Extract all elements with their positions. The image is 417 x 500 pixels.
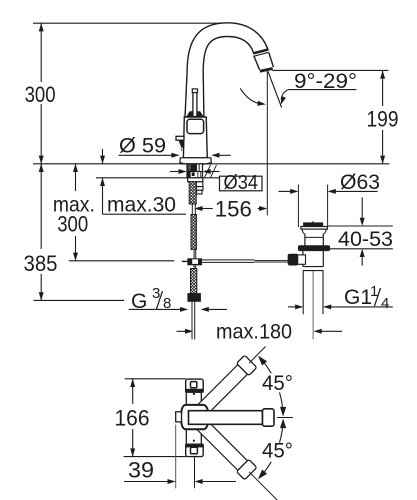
plate screw dots xyxy=(193,393,195,395)
pop-up waste: Ø63 extension lines xyxy=(297,185,299,227)
max.300 bottom reference line xyxy=(69,260,174,262)
waste flange rim xyxy=(301,227,328,230)
spout gooseneck inner curve xyxy=(203,37,254,73)
thin rod below fitting xyxy=(193,265,195,269)
axis extension line xyxy=(194,457,196,489)
swivel arm at +45° (up) xyxy=(184,355,257,428)
199 reference line from outlet xyxy=(273,69,389,71)
dimension max.30 (deck thickness) xyxy=(102,149,104,164)
pull rod plain segment xyxy=(191,204,193,215)
lower view: bottom reference line xyxy=(124,456,186,458)
svg-text:300: 300 xyxy=(25,82,56,107)
clamp knob xyxy=(288,254,298,265)
body window detail xyxy=(187,119,204,133)
waste tail pipe xyxy=(302,271,304,315)
svg-text:166: 166 xyxy=(115,406,150,431)
waste axis line xyxy=(312,271,314,339)
lower 45° arc xyxy=(259,462,271,478)
threaded rod below fitting (hatched) xyxy=(191,269,197,294)
svg-text:156: 156 xyxy=(215,197,252,222)
dimension max.180 xyxy=(177,330,186,332)
dimension 199 (outlet height) xyxy=(382,70,384,106)
upper 45° arc xyxy=(259,357,271,373)
waste O-ring xyxy=(298,246,329,251)
dimension Ø59 (base diameter) xyxy=(119,154,173,156)
flexible hoses xyxy=(191,301,193,339)
locknut below deck xyxy=(188,178,203,182)
horizontal pop-up rod xyxy=(201,259,254,261)
central axis tick xyxy=(277,417,293,419)
svg-text:G1: G1 xyxy=(344,286,372,309)
svg-text:199: 199 xyxy=(367,107,399,132)
svg-text:300: 300 xyxy=(57,212,88,237)
lever base wedge right xyxy=(197,111,204,116)
spout tip extension line xyxy=(266,71,268,216)
385 bottom reference line xyxy=(34,299,125,301)
threaded rod lower segment (hatched) xyxy=(191,215,196,250)
deck cross-section hatch right of shank xyxy=(205,165,211,178)
lower arm axis extension xyxy=(249,472,280,500)
waste upper cylinder xyxy=(304,234,306,246)
dimension 40-53 xyxy=(328,225,393,227)
dimension G1 1/4 xyxy=(288,306,295,308)
lever cap xyxy=(192,89,197,93)
boxed label Ø34 xyxy=(220,176,263,191)
dimension 156 (spout reach) xyxy=(202,208,213,210)
waste coupling joint xyxy=(303,266,323,268)
flange taper xyxy=(302,229,326,234)
waste plug top xyxy=(312,221,314,223)
svg-text:39: 39 xyxy=(128,458,154,483)
lever joystick rod xyxy=(193,92,197,117)
G3/8 connection nut xyxy=(188,294,200,302)
knob face extension line xyxy=(175,425,177,489)
hose nipple block xyxy=(196,182,203,187)
swivel arm at -45° (down) xyxy=(184,407,257,480)
top extension line (300 ref, spout apex) xyxy=(33,22,221,24)
dimension 385 (total depth) xyxy=(40,164,42,249)
mounting shank through deck xyxy=(187,164,203,178)
faucet body xyxy=(183,117,207,158)
svg-text:40-53: 40-53 xyxy=(338,228,393,251)
wall plate xyxy=(186,390,201,446)
swivel arc with arrow xyxy=(240,88,262,104)
svg-text:45°: 45° xyxy=(262,372,293,395)
outlet angle diagonal xyxy=(268,72,282,108)
svg-text:45°: 45° xyxy=(262,440,293,463)
svg-text:385: 385 xyxy=(24,251,58,276)
deck bottom line xyxy=(96,177,220,179)
base skirt xyxy=(180,158,211,164)
svg-text:4: 4 xyxy=(381,295,389,312)
side lever handle xyxy=(176,136,184,140)
svg-text:Ø 59: Ø 59 xyxy=(119,135,166,158)
svg-text:Ø34: Ø34 xyxy=(224,172,259,194)
dimension 39 xyxy=(124,481,168,483)
dimension Ø63 xyxy=(279,190,291,192)
svg-text:max.180: max.180 xyxy=(216,321,292,344)
underline + leader to diagonal xyxy=(281,90,356,100)
thin rod to cross fitting xyxy=(193,249,195,259)
dimension 166 xyxy=(132,379,134,404)
bottom screw tab xyxy=(186,444,204,456)
lower view: top reference line xyxy=(125,378,186,380)
svg-text:Ø63: Ø63 xyxy=(340,171,380,194)
threaded mounting stud (hatched) xyxy=(189,182,196,204)
aerator nozzle xyxy=(254,53,274,71)
dimension Ø34 (hole) arrows xyxy=(170,171,179,173)
central spout arm xyxy=(189,411,263,425)
upper arm axis extension xyxy=(249,347,266,364)
svg-text:max.30: max.30 xyxy=(107,194,176,217)
waste lower body xyxy=(302,251,304,267)
rod stub left xyxy=(182,260,188,262)
dimension 300 (height above deck) xyxy=(40,23,42,82)
top screw tab xyxy=(186,379,204,392)
clamp box xyxy=(296,255,305,264)
side knob xyxy=(176,412,182,422)
swivel hub barrel xyxy=(181,405,208,429)
lever base wedge left xyxy=(186,111,193,116)
spout riser tube xyxy=(185,72,187,117)
deck / mounting surface line xyxy=(33,163,390,165)
pop-up rod cross fitting xyxy=(188,259,201,265)
lever handle shadow tail xyxy=(180,148,183,151)
spout gooseneck outer curve xyxy=(187,23,268,72)
dimension max.300 (hose length below deck) xyxy=(75,164,77,191)
